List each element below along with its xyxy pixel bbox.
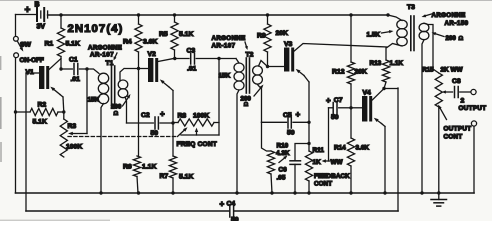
output cont arrow: [438, 105, 447, 120]
resistor R13: [370, 48, 404, 89]
resistor R11 pot: [305, 147, 343, 193]
svg-text:15K: 15K: [88, 97, 100, 104]
svg-text:5.1K: 5.1K: [33, 119, 47, 126]
svg-text:1.5K: 1.5K: [367, 32, 381, 39]
node C5 right: [307, 121, 310, 124]
resistor R10: [262, 122, 290, 193]
node C1 out: [59, 67, 88, 70]
node R2-left: [14, 110, 17, 113]
transistor V3: [284, 41, 294, 72]
transformer T2 secondary: [253, 61, 268, 123]
resistor R7: [160, 123, 194, 193]
node V4 base: [349, 106, 352, 109]
node R9 top: [266, 13, 269, 16]
svg-text:C4: C4: [227, 201, 236, 208]
node V1 emitter / R2 / R3: [62, 110, 65, 113]
wire V2 base row: [125, 68, 148, 70]
svg-text:C1: C1: [69, 57, 78, 64]
svg-text:OUTPUT: OUTPUT: [444, 126, 472, 133]
wire lower feedback rail left: [26, 210, 229, 212]
transformer T1 primary: [87, 69, 109, 104]
node T2 prim gnd: [235, 191, 238, 194]
svg-text:+: +: [326, 96, 331, 105]
svg-text:R10: R10: [277, 143, 289, 150]
switch SW: [14, 36, 44, 64]
svg-text:+: +: [25, 5, 31, 16]
output terminal 1: [459, 89, 487, 112]
svg-text:R12: R12: [332, 69, 345, 76]
label T2 200 ohm: [241, 85, 264, 108]
svg-text:T2: T2: [246, 52, 254, 59]
transistor V2: [148, 51, 159, 82]
node C6 top: [307, 142, 310, 145]
svg-text:R14: R14: [334, 145, 346, 152]
label ARGONNE AR-159: [422, 12, 469, 27]
transformer T1 secondary: [118, 69, 128, 124]
resistor R15 pot: [422, 67, 463, 194]
svg-text:B: B: [35, 2, 40, 9]
svg-text:C7: C7: [334, 97, 343, 104]
svg-text:AR-159: AR-159: [445, 20, 469, 27]
node R14 gnd: [349, 191, 352, 194]
wire feedback riser: [397, 88, 399, 211]
label 1.5K: [367, 30, 394, 38]
label ARGONNE AR-107 (T1): [88, 45, 122, 61]
svg-text:T3: T3: [407, 4, 415, 11]
svg-text:2: 2: [461, 98, 465, 105]
transistor V1: [26, 66, 50, 89]
svg-text:ON-OFF: ON-OFF: [20, 57, 44, 64]
svg-text:C2: C2: [141, 112, 150, 119]
ground: [431, 193, 447, 206]
wire lower feedback rail right: [235, 210, 398, 212]
svg-text:Ω: Ω: [114, 111, 119, 117]
svg-text:2N107(4): 2N107(4): [68, 23, 124, 35]
svg-text:R15: R15: [422, 67, 434, 74]
svg-text:OUTPUT: OUTPUT: [459, 105, 487, 112]
svg-text:200: 200: [111, 104, 122, 111]
node V2 base: [137, 67, 140, 70]
resistor R2: [16, 102, 64, 126]
resistor R4: [123, 15, 157, 69]
svg-text:T1: T1: [106, 60, 114, 67]
svg-text:C3: C3: [187, 48, 196, 55]
svg-text:5.1K: 5.1K: [66, 41, 80, 48]
svg-text:R9: R9: [257, 33, 266, 40]
wire V4 base: [351, 107, 362, 109]
node R15 gnd: [437, 191, 440, 194]
svg-text:AR-107: AR-107: [212, 43, 236, 50]
svg-text:50: 50: [287, 130, 295, 137]
wire V3 collector long: [294, 44, 387, 52]
svg-text:3.6K: 3.6K: [356, 145, 370, 152]
svg-text:3V: 3V: [37, 24, 46, 31]
label T1 200 ohm: [111, 94, 131, 117]
svg-text:C6: C6: [279, 167, 288, 174]
label FEEDBACK CONT: [314, 173, 350, 188]
svg-text:.01: .01: [187, 66, 197, 73]
transformer T2 primary: [219, 59, 245, 194]
transistor V4: [362, 90, 372, 122]
svg-text:R5: R5: [159, 31, 168, 38]
svg-text:Ω: Ω: [459, 36, 464, 42]
transformer T2 core: [246, 52, 254, 94]
svg-text:4.3K: 4.3K: [276, 150, 290, 157]
svg-text:100K: 100K: [66, 144, 82, 151]
wire T1 primary bottom: [101, 104, 104, 194]
svg-text:3.6K: 3.6K: [143, 39, 157, 46]
node C6 gnd: [293, 191, 296, 194]
svg-text:FEEDBACK: FEEDBACK: [314, 173, 350, 180]
label FREQ CONT: [177, 141, 218, 148]
svg-text:5.1K: 5.1K: [179, 174, 193, 181]
svg-text:Ω: Ω: [244, 102, 249, 108]
svg-text:100K: 100K: [193, 113, 209, 120]
svg-text:SW: SW: [20, 42, 32, 49]
resistor R1: [45, 15, 80, 69]
svg-text:1K: 1K: [313, 159, 322, 166]
capacitor C6: [277, 144, 310, 194]
svg-text:1.1K: 1.1K: [390, 60, 404, 67]
svg-text:ARGONNE: ARGONNE: [212, 35, 246, 42]
resistor R14: [334, 108, 369, 193]
V3 emitter arrow: [296, 69, 309, 151]
svg-text:R6: R6: [123, 164, 132, 171]
svg-text:1.1K: 1.1K: [142, 164, 156, 171]
node T3 top: [386, 13, 389, 16]
node R1 top: [59, 13, 62, 16]
wire V3 base: [268, 66, 285, 68]
node V4 collector: [382, 87, 385, 90]
node R6 gnd: [137, 191, 140, 194]
svg-text:R3: R3: [68, 123, 77, 130]
transformer T3 core: [407, 4, 415, 51]
resistor R12: [332, 15, 367, 108]
wire battery to switch: [15, 15, 17, 37]
svg-text:AR-107: AR-107: [90, 52, 114, 59]
svg-text:R2: R2: [38, 102, 47, 109]
svg-text:50: 50: [231, 217, 239, 222]
resistor R9: [257, 15, 288, 67]
label 2N107(4): [68, 23, 124, 35]
node R7 gnd: [171, 191, 174, 194]
svg-text:.01: .01: [71, 76, 81, 83]
battery B: [16, 2, 48, 31]
node R5 top: [173, 13, 176, 16]
svg-text:C8: C8: [452, 78, 461, 85]
R11 wiper to C7: [322, 108, 333, 163]
capacitor C3: [175, 48, 237, 73]
V1 emitter arrow: [50, 87, 64, 112]
capacitor C2: [127, 110, 174, 138]
wire R3 wiper: [68, 69, 87, 135]
wire V1 collector: [49, 59, 62, 71]
svg-text:200: 200: [446, 35, 457, 42]
svg-text:V4: V4: [363, 90, 372, 97]
node R4 top: [137, 13, 140, 16]
capacitor C4: [220, 200, 239, 224]
svg-text:CONT: CONT: [314, 181, 332, 188]
svg-text:.05: .05: [277, 175, 286, 182]
svg-text:FREQ CONT: FREQ CONT: [177, 141, 218, 148]
svg-text:+: +: [296, 110, 301, 119]
wire top supply rail: [48, 14, 388, 16]
wire V4 collector: [372, 89, 398, 101]
label ARGONNE AR-107 (T2): [212, 35, 248, 50]
resistor R5: [159, 15, 193, 59]
node T3 sec gnd: [420, 191, 423, 194]
transformer T3 primary: [387, 15, 407, 48]
label OUTPUT CONT: [444, 126, 472, 141]
resistor R3 pot: [60, 112, 82, 157]
svg-text:R11: R11: [313, 147, 325, 154]
node V4 emitter gnd: [383, 191, 386, 194]
label T3 200 ohm: [432, 32, 464, 42]
svg-text:ARGONNE: ARGONNE: [432, 12, 466, 19]
svg-text:ARGONNE: ARGONNE: [88, 45, 122, 52]
wire switch down left rail: [15, 58, 17, 193]
wire V1 base drop: [25, 73, 27, 211]
node V2 collector: [173, 57, 176, 60]
svg-text:2K WW: 2K WW: [441, 67, 464, 74]
svg-text:R1: R1: [45, 41, 54, 48]
svg-text:15K: 15K: [219, 73, 231, 80]
svg-text:50: 50: [331, 114, 339, 121]
svg-text:+: +: [220, 200, 225, 209]
svg-text:WW: WW: [331, 159, 344, 166]
svg-text:20K: 20K: [276, 30, 289, 37]
svg-text:R8: R8: [178, 113, 187, 120]
node R12 top: [349, 13, 352, 16]
V4 emitter arrow: [374, 118, 385, 193]
resistor R6: [123, 69, 156, 194]
svg-text:CONT: CONT: [444, 134, 463, 141]
V2 emitter arrow: [160, 79, 173, 123]
transformer T1 core: [106, 60, 115, 108]
svg-text:C5: C5: [283, 112, 292, 119]
svg-text:+: +: [160, 110, 165, 119]
capacitor C5: [262, 110, 310, 137]
R8 wiper arrow: [195, 128, 198, 135]
node R10 gnd: [270, 191, 273, 194]
capacitor C8: [442, 78, 471, 105]
svg-text:R7: R7: [160, 173, 169, 180]
wire V2 collector: [158, 58, 175, 61]
node R11 gnd: [307, 191, 310, 194]
transformer T3 secondary: [419, 23, 439, 193]
gang dashed link: [68, 127, 188, 136]
capacitor C7: [326, 96, 351, 121]
node T1 prim gnd: [99, 191, 102, 194]
resistor R8 pot: [173, 59, 219, 136]
svg-text:20K: 20K: [355, 69, 368, 76]
svg-text:V3: V3: [284, 41, 293, 48]
capacitor C1: [61, 57, 87, 84]
node R8 top: [217, 57, 220, 60]
node V2 emitter / C2 / R8: [171, 121, 174, 124]
svg-text:R13: R13: [370, 60, 382, 67]
wire main bottom rail: [16, 192, 475, 194]
svg-text:R4: R4: [123, 39, 132, 46]
output terminal 2: [471, 121, 476, 193]
node V3 base: [266, 65, 269, 68]
svg-text:V2: V2: [148, 51, 157, 58]
svg-text:5.1K: 5.1K: [179, 31, 193, 38]
